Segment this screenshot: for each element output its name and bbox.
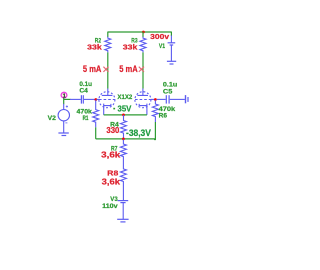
svg-text:V2: V2 <box>48 115 57 122</box>
node cathode rail junction <box>122 114 125 117</box>
svg-text:C4: C4 <box>79 88 88 95</box>
capacitor C5 <box>157 95 185 103</box>
output terminal <box>186 95 189 103</box>
battery V3 <box>118 201 129 220</box>
resistor R3 <box>140 37 146 53</box>
wire cathode rail <box>104 114 147 116</box>
svg-text:5 mA: 5 mA <box>83 64 102 74</box>
resistor R1 <box>93 100 99 127</box>
node voltage -35V <box>113 108 115 110</box>
triode U1a grid <box>99 99 115 101</box>
svg-text:110v: 110v <box>102 203 118 210</box>
battery V1 <box>168 36 176 62</box>
wire node1 right <box>64 98 71 100</box>
node 1 <box>61 92 67 98</box>
svg-text:330: 330 <box>106 125 119 135</box>
svg-text:C5: C5 <box>163 89 173 96</box>
svg-text:V1: V1 <box>159 43 165 50</box>
svg-text:33k: 33k <box>123 43 138 52</box>
ground V3 <box>117 219 128 222</box>
svg-text:X1X2: X1X2 <box>117 94 132 101</box>
triode U1a plate <box>102 89 113 96</box>
triode U1a cathode <box>104 104 111 106</box>
ground V2 <box>58 133 68 136</box>
wire R6 bottom to rail <box>154 122 155 140</box>
node grid-left junction <box>94 98 97 101</box>
wire grid right stub <box>151 98 156 100</box>
node top-rail junction <box>142 31 145 34</box>
capacitor C4 <box>70 95 95 103</box>
svg-text:-38,3V: -38,3V <box>126 128 151 139</box>
wire R3 top stub <box>142 32 144 37</box>
wire R2 to plate <box>107 52 109 88</box>
wire V1 top <box>170 32 172 36</box>
resistor R2 <box>105 37 111 53</box>
triode U1b grid <box>135 99 151 101</box>
wire R3 to plate <box>142 52 144 88</box>
svg-text:R6: R6 <box>159 113 168 120</box>
svg-text:5 mA: 5 mA <box>119 64 138 74</box>
resistor R6 <box>152 100 158 122</box>
triode U1b envelope <box>135 92 151 108</box>
svg-text:R1: R1 <box>83 115 89 122</box>
triode U1a cathode lead <box>103 106 105 115</box>
node bottom rail junction <box>122 138 125 141</box>
svg-text:33k: 33k <box>87 43 102 52</box>
svg-text:300v: 300v <box>150 32 169 41</box>
ground V1 <box>167 61 176 64</box>
probe X right <box>139 67 144 72</box>
wire top rail <box>108 31 172 33</box>
probe X left <box>103 67 108 72</box>
wire node1 down <box>63 98 65 104</box>
svg-text:0.1u: 0.1u <box>163 82 178 89</box>
wire R2 top stub <box>107 32 109 37</box>
svg-text:3,6k: 3,6k <box>102 177 121 187</box>
triode U1a envelope <box>99 92 115 108</box>
source V2 <box>58 104 69 133</box>
wire grid left stub <box>97 98 100 100</box>
triode U1b plate <box>137 89 148 96</box>
resistor R8 <box>120 163 126 201</box>
resistor R7 <box>120 140 126 164</box>
node grid-right junction <box>154 98 157 101</box>
triode U1b cathode <box>139 104 147 106</box>
triode U1b cathode lead <box>146 106 148 115</box>
svg-text:35V: 35V <box>118 104 132 114</box>
svg-text:3,6k: 3,6k <box>101 149 121 159</box>
resistor R4 <box>121 115 127 139</box>
wire bottom rail <box>96 138 156 140</box>
wire R1 bottom to rail <box>95 127 97 139</box>
